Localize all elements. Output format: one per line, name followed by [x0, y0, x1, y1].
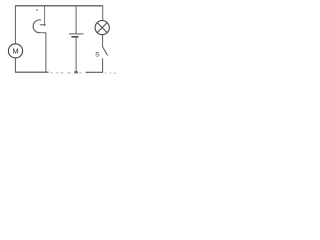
bell branch: top lead	[44, 6, 46, 25]
wire: bottom faint dashed middle segment	[51, 72, 82, 74]
wire: switch bottom lead (right wire lower)	[102, 58, 104, 72]
lamp cross X	[97, 23, 107, 33]
battery: top lead	[75, 6, 77, 34]
battery: long plate (+)	[69, 33, 84, 35]
junction: battery lead meets bottom wire	[74, 71, 78, 73]
switch S blade (open)	[103, 47, 108, 55]
lamp branch: top lead (right wire upper)	[102, 6, 104, 21]
wire: bottom faint dashes right of corner	[105, 72, 117, 74]
svg-text:M: M	[12, 47, 18, 56]
wire: bottom horizontal left solid segment	[15, 71, 49, 73]
svg-text:S: S	[95, 52, 100, 59]
wire: top horizontal	[15, 5, 103, 7]
bell: bottom lead to bottom wire	[45, 33, 47, 72]
wire: lamp bottom to switch top	[102, 35, 104, 48]
wire: motor bottom lead	[14, 58, 16, 72]
bell: junction dot at bar/lead corner	[44, 24, 46, 26]
stray mark above bell	[36, 9, 38, 10]
battery: bottom lead	[75, 38, 77, 73]
wire: left vertical (top wire to motor)	[14, 6, 16, 44]
battery: short plate (-)	[71, 36, 78, 38]
bell: bottom flat extension	[40, 32, 46, 34]
bell: open circle arc	[33, 20, 41, 33]
lamp L1 circle	[95, 21, 109, 35]
background	[0, 0, 119, 81]
wire: bottom solid right segment	[86, 71, 104, 73]
bell: horizontal bar into circle	[40, 24, 45, 26]
motor M1 circle	[8, 44, 22, 58]
